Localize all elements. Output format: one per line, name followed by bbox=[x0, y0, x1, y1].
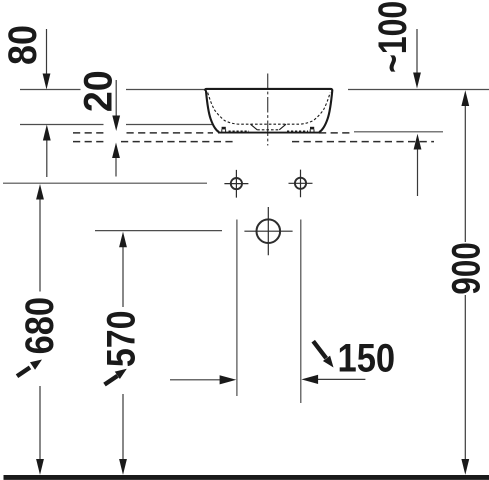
basin outer profile bbox=[206, 90, 332, 132]
fixing hole right bbox=[289, 170, 313, 198]
rim reference line left bbox=[20, 89, 205, 91]
svg-text:680: 680 bbox=[16, 297, 61, 354]
dim 150 left arrow bbox=[170, 375, 236, 384]
drain circle bbox=[244, 207, 292, 255]
dim ~100 upper arrow bbox=[413, 29, 421, 89]
dim 570 line bbox=[119, 232, 127, 475]
basin bottom line bbox=[218, 132, 320, 134]
dim 680 line bbox=[36, 184, 44, 475]
hidden dashed line row 2 bbox=[73, 141, 434, 143]
counter surface line bbox=[20, 124, 212, 126]
svg-text:80: 80 bbox=[1, 25, 45, 65]
drain boss bottom dashed bbox=[257, 129, 279, 131]
dim 20 upper arrow bbox=[112, 80, 120, 131]
rim reference line right bbox=[348, 89, 489, 91]
dim 80 lower arrow bbox=[43, 125, 51, 178]
svg-text:~100: ~100 bbox=[370, 1, 415, 73]
svg-text:900: 900 bbox=[443, 242, 489, 294]
extension line left (150) bbox=[236, 220, 238, 397]
dim ~100 lower arrow bbox=[414, 134, 422, 196]
counter underside solid line right bbox=[354, 131, 443, 133]
dim 900 line bbox=[461, 90, 469, 475]
fixing hole left bbox=[224, 170, 248, 198]
floor line bbox=[4, 475, 489, 480]
basin center line bbox=[267, 74, 269, 146]
drain boss trapezoid sides bbox=[250, 124, 286, 130]
svg-text:570: 570 bbox=[98, 310, 143, 367]
leader arrow 680 bbox=[17, 360, 42, 377]
hidden dashed line row 1 bbox=[73, 132, 351, 134]
dim 150 right arrow bbox=[301, 375, 365, 384]
svg-text:150: 150 bbox=[337, 335, 395, 380]
drain height line bbox=[95, 230, 222, 232]
basin rim top bbox=[205, 89, 332, 91]
leader arrow 150 bbox=[313, 341, 333, 367]
dim 20 lower arrow bbox=[112, 143, 120, 177]
extension line right (150) bbox=[300, 220, 302, 404]
bottom dotted texture right bbox=[287, 130, 308, 132]
fixing hole height line bbox=[3, 182, 207, 184]
basin inner bowl (dashed) bbox=[208, 93, 331, 125]
dim 80 upper arrow bbox=[43, 29, 51, 90]
left foot bbox=[222, 127, 226, 132]
svg-text:20: 20 bbox=[76, 70, 120, 112]
bottom dotted texture left bbox=[229, 130, 250, 132]
right foot bbox=[310, 127, 314, 132]
leader arrow 570 bbox=[105, 369, 127, 385]
